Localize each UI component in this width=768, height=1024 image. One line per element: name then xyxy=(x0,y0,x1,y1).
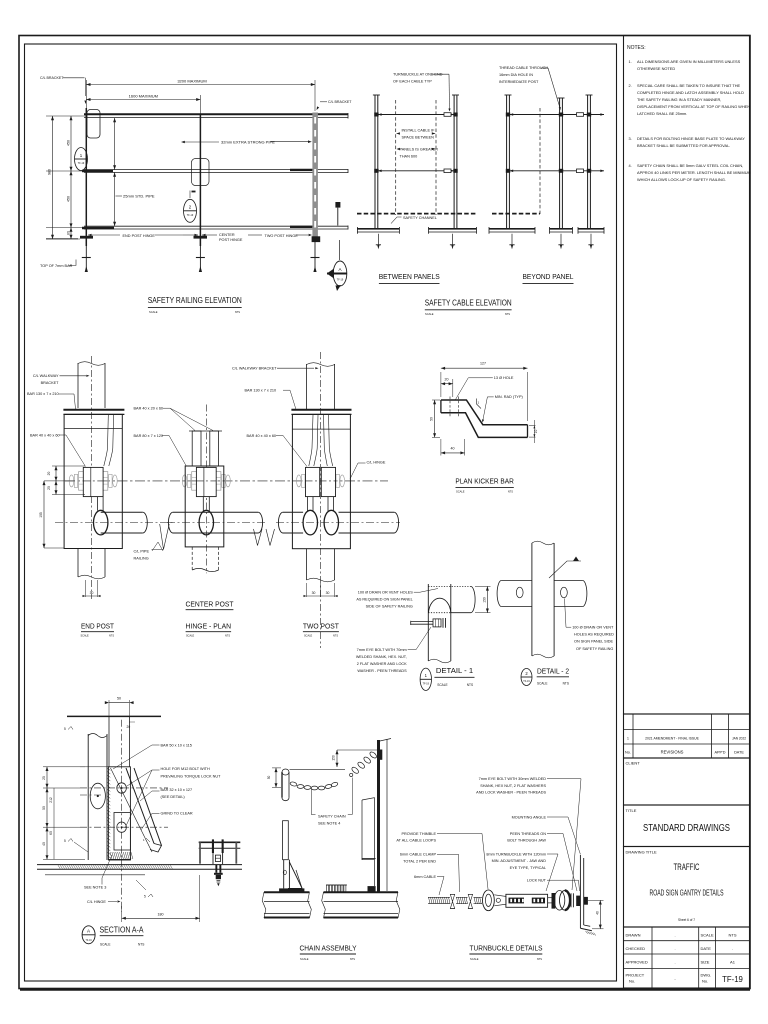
svg-text:INTERMEDIATE POST: INTERMEDIATE POST xyxy=(499,80,539,84)
svg-text:16mm DIA HOLE IN: 16mm DIA HOLE IN xyxy=(499,73,533,77)
svg-text:SCALE: SCALE xyxy=(304,635,313,638)
svg-text:END POST: END POST xyxy=(81,622,114,631)
svg-text:30: 30 xyxy=(90,591,94,595)
svg-text:TURNBUCKLE DETAILS: TURNBUCKLE DETAILS xyxy=(470,944,543,953)
svg-text:MIN. RAD (TYP): MIN. RAD (TYP) xyxy=(495,395,524,399)
svg-text:NTS: NTS xyxy=(225,635,230,638)
svg-text:SHANK, HEX NUT, 2 FLAT WASHERS: SHANK, HEX NUT, 2 FLAT WASHERS xyxy=(480,784,546,788)
svg-text:40: 40 xyxy=(42,842,46,846)
bottom rail pipe xyxy=(84,225,348,227)
base hatched xyxy=(110,852,112,859)
center post bars above xyxy=(192,431,201,466)
svg-text:SCALE: SCALE xyxy=(456,490,465,494)
svg-text:SAFETY CHAIN: SAFETY CHAIN xyxy=(318,815,346,819)
svg-text:TITLE: TITLE xyxy=(626,808,637,813)
thimble loop xyxy=(483,890,495,911)
svg-text:105: 105 xyxy=(39,512,43,518)
end post pipe xyxy=(94,510,108,535)
svg-text:PREVAILING TORQUE LOCK NUT: PREVAILING TORQUE LOCK NUT xyxy=(161,774,222,778)
svg-text:DWG.: DWG. xyxy=(701,973,712,978)
horizontal chain xyxy=(290,768,346,770)
washers xyxy=(570,893,572,907)
svg-text:6mm CABLE: 6mm CABLE xyxy=(414,875,436,879)
50 dim xyxy=(272,767,281,769)
svg-text:7mm EYE BOLT WITH 30mm WELDED: 7mm EYE BOLT WITH 30mm WELDED xyxy=(479,777,547,781)
svg-text:RAILING: RAILING xyxy=(134,557,149,561)
inner rect bar32 xyxy=(114,813,130,851)
svg-text:7mm EYE BOLT WITH 70mm: 7mm EYE BOLT WITH 70mm xyxy=(357,648,407,652)
svg-text:50: 50 xyxy=(267,776,271,780)
svg-text:REVISIONS: REVISIONS xyxy=(661,750,684,755)
svg-text:NTS: NTS xyxy=(235,310,240,314)
svg-text:SIZE: SIZE xyxy=(701,960,710,965)
notes box xyxy=(624,36,750,715)
detail 2 weld symbol xyxy=(549,561,581,578)
end post top plate BAR 130x7x210 xyxy=(63,409,124,411)
svg-text:ON SIGN PANEL SIDE: ON SIGN PANEL SIDE xyxy=(574,640,614,644)
weld flags on diagonal xyxy=(146,838,150,842)
CENTER POST HINGE-PLAN view xyxy=(205,405,207,574)
detail balloon 1 end post xyxy=(75,148,88,171)
svg-text:2.: 2. xyxy=(629,83,632,88)
end post 30 dim xyxy=(85,580,87,597)
jaw left xyxy=(494,895,506,906)
center post latch sleeve xyxy=(192,159,210,186)
svg-text:127: 127 xyxy=(480,362,486,366)
svg-text:BRACKET: BRACKET xyxy=(41,381,60,385)
svg-text:THAN 600: THAN 600 xyxy=(400,155,418,159)
walkway ground segments xyxy=(46,238,78,240)
svg-text:WHICH ALLOWS LOCK-UP OF SAFETY: WHICH ALLOWS LOCK-UP OF SAFETY RAILING. xyxy=(637,177,726,182)
sign panel edge xyxy=(362,798,374,860)
svg-text:NTS: NTS xyxy=(537,957,542,961)
lock nut dark xyxy=(576,896,580,906)
two post hinge xyxy=(306,472,315,491)
svg-text:TURNBUCKLE AT ONE END: TURNBUCKLE AT ONE END xyxy=(393,73,443,77)
kicker bar outline xyxy=(441,400,528,425)
weld hatch on plate left edge xyxy=(107,768,110,770)
svg-text:6mm CABLE CLAMP: 6mm CABLE CLAMP xyxy=(400,853,437,857)
detail 2 left pipe xyxy=(502,579,532,581)
bolt holes xyxy=(117,783,127,793)
two post upper bracket xyxy=(306,364,308,410)
dim 180 xyxy=(121,906,123,922)
svg-text:80: 80 xyxy=(66,231,70,235)
svg-text:40: 40 xyxy=(596,911,600,915)
svg-text:C/L HINGE: C/L HINGE xyxy=(87,900,106,904)
svg-text:HOLES AS REQUIRED: HOLES AS REQUIRED xyxy=(574,633,614,637)
svg-text:20: 20 xyxy=(47,472,51,476)
hole dashed lines xyxy=(449,397,451,417)
svg-text:BAR 32 x 10 x 127: BAR 32 x 10 x 127 xyxy=(161,788,193,792)
svg-text:SAFETY CABLE ELEVATION: SAFETY CABLE ELEVATION xyxy=(425,299,512,308)
svg-text:TF-19: TF-19 xyxy=(722,975,743,984)
weld flag on bend xyxy=(477,399,482,409)
two post lower stub xyxy=(306,549,308,580)
svg-text:SAFETY CHAIN SHALL BE 5mm GALV: SAFETY CHAIN SHALL BE 5mm GALV STEEL COI… xyxy=(637,163,743,168)
svg-text:SCALE: SCALE xyxy=(149,310,158,314)
eye bolt ring xyxy=(554,891,565,911)
svg-text:CENTER: CENTER xyxy=(219,233,235,237)
svg-text:C/L BRACKET: C/L BRACKET xyxy=(328,100,352,104)
center post xyxy=(199,114,201,246)
end post left dims 20/20/105 xyxy=(52,465,85,467)
svg-text:GRIND TO CLEAR: GRIND TO CLEAR xyxy=(161,812,193,816)
two post body xyxy=(292,414,350,548)
svg-text:BAR 40 x 20 x 60: BAR 40 x 20 x 60 xyxy=(134,407,164,411)
svg-text:SECTION A-A: SECTION A-A xyxy=(100,926,145,935)
svg-text:DISPLACEMENT FROM VERTICAL AT: DISPLACEMENT FROM VERTICAL AT TOP OF RAI… xyxy=(637,104,750,109)
far side bolt xyxy=(584,897,588,905)
revisions table xyxy=(624,714,750,758)
svg-text:TF-19: TF-19 xyxy=(337,279,344,282)
svg-text:30: 30 xyxy=(312,591,316,595)
svg-text:END POST HINGE: END POST HINGE xyxy=(123,234,156,238)
svg-text:2 FLAT WASHER AND LOCK: 2 FLAT WASHER AND LOCK xyxy=(357,662,407,666)
svg-text:TOP OF 7mm BAR: TOP OF 7mm BAR xyxy=(40,264,73,268)
detail 1 dome cap xyxy=(429,598,451,612)
cable rope left xyxy=(428,896,450,898)
svg-text:OF SAFETY RAILING: OF SAFETY RAILING xyxy=(576,647,613,651)
bolt below walkway xyxy=(215,865,217,873)
left lower bracket xyxy=(283,821,289,860)
svg-text:No.: No. xyxy=(625,751,631,755)
svg-text:HOLE FOR M12 BOLT WITH: HOLE FOR M12 BOLT WITH xyxy=(161,767,210,771)
detail 2 right pipe xyxy=(554,579,582,581)
drawn/checked table xyxy=(624,927,750,988)
svg-text:NTS: NTS xyxy=(138,943,144,947)
svg-text:WELDED SHANK, HEX. NUT,: WELDED SHANK, HEX. NUT, xyxy=(356,655,407,659)
TWO POST view xyxy=(320,352,322,648)
svg-text:CLIENT: CLIENT xyxy=(626,761,641,766)
end post inner bracket lines xyxy=(104,415,109,466)
svg-text:1.: 1. xyxy=(629,59,632,64)
svg-text:NTS: NTS xyxy=(333,635,338,638)
two post bar (grey) xyxy=(312,113,318,238)
svg-text:212: 212 xyxy=(49,797,53,803)
svg-text:BAR 130 x 7 x 210: BAR 130 x 7 x 210 xyxy=(27,392,59,396)
svg-text:5: 5 xyxy=(64,839,66,843)
right shaft xyxy=(548,897,552,899)
dim 10 right xyxy=(529,425,536,427)
chain diagonal from post top xyxy=(369,751,378,759)
svg-text:SEE NOTE 4: SEE NOTE 4 xyxy=(318,822,340,826)
svg-text:ALL DIMENSIONS ARE GIVEN IN MI: ALL DIMENSIONS ARE GIVEN IN MILLIMETERS … xyxy=(637,59,741,64)
svg-text:SAFETY RAILING ELEVATION: SAFETY RAILING ELEVATION xyxy=(148,296,242,305)
svg-text:BOLT THROUGH JAW: BOLT THROUGH JAW xyxy=(507,839,546,843)
svg-text:TF-19: TF-19 xyxy=(523,680,530,683)
svg-text:STANDARD DRAWINGS: STANDARD DRAWINGS xyxy=(643,823,730,834)
150 dim xyxy=(337,749,377,751)
two post pipes xyxy=(303,510,317,535)
svg-text:Sheet 6 of 7: Sheet 6 of 7 xyxy=(678,917,696,922)
svg-text:APP'D: APP'D xyxy=(714,751,725,755)
svg-text:TRAFFIC: TRAFFIC xyxy=(674,862,700,872)
svg-text:BAR 40 x 40 x 60: BAR 40 x 40 x 60 xyxy=(247,434,277,438)
svg-text:5: 5 xyxy=(144,895,146,899)
svg-text:25: 25 xyxy=(42,776,46,780)
beyond panel posts xyxy=(506,95,508,229)
dashed panel edges xyxy=(395,100,397,215)
left dim chain xyxy=(80,766,108,768)
svg-text:10: 10 xyxy=(534,430,538,434)
hinge centerlines horizontal xyxy=(80,787,168,789)
svg-text:EYE TYPE, TYPICAL: EYE TYPE, TYPICAL xyxy=(510,866,546,870)
two post inner bracket lines xyxy=(309,415,313,466)
svg-text:NOTES:: NOTES: xyxy=(627,45,646,51)
svg-text:.: . xyxy=(674,933,675,938)
svg-text:30: 30 xyxy=(326,591,330,595)
svg-text:DATE: DATE xyxy=(734,751,744,755)
svg-text:PROVIDE THIMBLE: PROVIDE THIMBLE xyxy=(401,832,436,836)
beyond panel safety channel xyxy=(492,213,540,215)
svg-text:20: 20 xyxy=(445,378,449,382)
svg-text:40: 40 xyxy=(451,447,455,451)
pipe break V marks left of center post xyxy=(160,524,170,549)
svg-text:ROAD SIGN GANTRY DETAILS: ROAD SIGN GANTRY DETAILS xyxy=(650,888,724,898)
svg-text:NTS: NTS xyxy=(109,635,114,638)
client box xyxy=(624,758,750,805)
end post centerline xyxy=(90,356,92,599)
svg-text:(SEE DETAIL): (SEE DETAIL) xyxy=(161,795,186,799)
svg-text:C/L BRACKET: C/L BRACKET xyxy=(40,76,64,80)
drawing title box xyxy=(624,847,750,928)
svg-text:BEYOND PANEL: BEYOND PANEL xyxy=(523,272,574,281)
dimension 1600 MAXIMUM xyxy=(199,95,201,114)
center post body xyxy=(185,466,224,547)
svg-text:NTS: NTS xyxy=(350,957,355,961)
detail 1 title xyxy=(420,668,431,690)
svg-text:AS REQUIRED ON SIGN PANEL: AS REQUIRED ON SIGN PANEL xyxy=(356,598,412,602)
post pivot hole xyxy=(90,783,105,809)
svg-text:SPECIAL CARE SHALL BE TAKEN TO: SPECIAL CARE SHALL BE TAKEN TO INSURE TH… xyxy=(637,83,741,88)
center post lower stub dashed xyxy=(191,547,193,570)
svg-text:TF-19: TF-19 xyxy=(78,162,85,165)
svg-text:13 Ø HOLE: 13 Ø HOLE xyxy=(494,376,514,380)
svg-text:CENTER POST: CENTER POST xyxy=(186,600,234,609)
svg-text:SCALE: SCALE xyxy=(300,957,309,961)
svg-text:8mm TURNBUCKLE WITH 120mm: 8mm TURNBUCKLE WITH 120mm xyxy=(486,852,546,856)
turnbuckle body xyxy=(506,894,548,907)
svg-text:APPROVED: APPROVED xyxy=(626,960,648,965)
svg-text:SCALE: SCALE xyxy=(81,635,90,638)
svg-text:AND LOCK WASHER - PEEN THREADS: AND LOCK WASHER - PEEN THREADS xyxy=(476,791,546,795)
svg-text:C/L PIPE: C/L PIPE xyxy=(134,550,150,554)
beyond panel feet xyxy=(489,228,535,230)
svg-text:C/L WALKWAY: C/L WALKWAY xyxy=(33,374,59,378)
svg-text:No.: No. xyxy=(629,979,635,984)
svg-text:C/L HINGE: C/L HINGE xyxy=(367,460,386,464)
svg-text:2021 AMENDMENT - FINAL ISSUE: 2021 AMENDMENT - FINAL ISSUE xyxy=(645,737,699,741)
section AA top rail line xyxy=(67,715,161,717)
end post hinge block xyxy=(79,472,88,491)
svg-text:C/L WALKWAY BRACKET: C/L WALKWAY BRACKET xyxy=(232,367,277,371)
svg-text:BRACKET SHALL BE SUBMITTED FOR: BRACKET SHALL BE SUBMITTED FOR APPROVAL. xyxy=(637,143,730,148)
svg-text:NTS: NTS xyxy=(467,683,473,687)
svg-text:CHAIN ASSEMBLY: CHAIN ASSEMBLY xyxy=(300,944,357,953)
detail 1 dim 150 xyxy=(475,585,491,587)
top rail pipe xyxy=(84,113,348,115)
inner rail spacing dim xyxy=(114,118,116,170)
svg-text:SCALE: SCALE xyxy=(437,683,447,687)
svg-text:50: 50 xyxy=(117,697,121,701)
svg-text:BETWEEN PANELS: BETWEEN PANELS xyxy=(379,272,440,281)
svg-text:BAR 40 x 40 x 60: BAR 40 x 40 x 60 xyxy=(30,434,60,438)
svg-text:PLAN KICKER BAR: PLAN KICKER BAR xyxy=(455,477,514,486)
end post upper bracket xyxy=(77,363,79,408)
rope to thimble xyxy=(456,896,468,898)
svg-text:POST HINGE: POST HINGE xyxy=(219,238,243,242)
svg-text:WASHER - PEEN THREADS: WASHER - PEEN THREADS xyxy=(357,669,407,673)
two post top plate xyxy=(291,409,351,411)
svg-text:SPACE BETWEEN: SPACE BETWEEN xyxy=(402,136,435,140)
end post xyxy=(85,108,87,246)
svg-text:450: 450 xyxy=(66,196,70,202)
title box xyxy=(624,805,750,847)
end post body xyxy=(64,414,122,548)
section AA title xyxy=(82,926,95,944)
middle rail pipe xyxy=(84,169,348,171)
detail balloon 2 center post xyxy=(184,199,197,222)
svg-text:32mm EXTRA STRONG PIPE: 32mm EXTRA STRONG PIPE xyxy=(221,140,275,145)
between panels feet xyxy=(357,228,399,230)
svg-text:PEEN THREADS ON: PEEN THREADS ON xyxy=(510,832,546,836)
cable clamps xyxy=(450,894,454,908)
svg-text:SCALE: SCALE xyxy=(701,933,714,938)
svg-text:.: . xyxy=(732,946,733,951)
svg-text:SIDE OF SAFETY RAILING: SIDE OF SAFETY RAILING xyxy=(366,605,413,609)
svg-text:SCALE: SCALE xyxy=(186,635,195,638)
svg-text:1: 1 xyxy=(627,737,629,741)
svg-text:PROJECT: PROJECT xyxy=(626,973,645,978)
svg-text:3.: 3. xyxy=(629,136,632,141)
end post lower stub xyxy=(77,548,79,577)
svg-text:20: 20 xyxy=(47,486,51,490)
svg-text:1600 MAXIMUM: 1600 MAXIMUM xyxy=(129,94,158,99)
svg-text:TWO POST: TWO POST xyxy=(303,622,339,631)
svg-text:APPROX 40 LINKS PER METER. LEN: APPROX 40 LINKS PER METER. LENGTH SHALL … xyxy=(637,170,751,175)
svg-text:.: . xyxy=(674,960,675,965)
drawing area inner border xyxy=(25,44,617,981)
svg-text:25mm STD. PIPE: 25mm STD. PIPE xyxy=(123,194,155,199)
svg-text:5: 5 xyxy=(64,727,66,731)
svg-text:No.: No. xyxy=(702,979,708,984)
svg-text:BAR 80 x 7 x 120: BAR 80 x 7 x 120 xyxy=(134,434,164,438)
detail 1 post xyxy=(427,584,429,661)
grating comb xyxy=(326,884,347,886)
svg-text:4.: 4. xyxy=(629,163,632,168)
svg-text:450: 450 xyxy=(66,140,70,146)
svg-text:SCALE: SCALE xyxy=(100,943,110,947)
svg-text:JAN 2022: JAN 2022 xyxy=(732,737,746,741)
svg-text:NTS: NTS xyxy=(508,490,513,494)
walkway beam xyxy=(37,864,242,866)
rail right ends xyxy=(347,113,349,119)
svg-text:LOCK NUT: LOCK NUT xyxy=(527,879,547,883)
dim 50 left xyxy=(432,399,440,401)
center post pipe through xyxy=(173,511,258,513)
U-bolt xyxy=(212,839,214,853)
beyond panel dashed edge xyxy=(539,108,541,214)
svg-text:TF-19: TF-19 xyxy=(187,214,194,217)
diagonal bar xyxy=(126,768,154,844)
right bracket (walkway clamp) xyxy=(199,841,241,843)
svg-text:3200 MAXIMUM: 3200 MAXIMUM xyxy=(177,79,206,84)
svg-text:TWO POST HINGE: TWO POST HINGE xyxy=(265,234,299,238)
svg-text:DATE: DATE xyxy=(701,946,712,951)
post stubs below walkway xyxy=(85,239,87,272)
upper bar strip xyxy=(108,716,110,766)
detail 1 eye bolt xyxy=(411,621,433,623)
left dims 980/450/450/80 xyxy=(46,115,86,117)
svg-text:NTS: NTS xyxy=(729,933,737,938)
svg-text:COMPLETED HINGE AND LATCH ASSE: COMPLETED HINGE AND LATCH ASSEMBLY SHALL… xyxy=(637,90,744,95)
post pipe xyxy=(87,734,89,860)
cables beyond panel xyxy=(510,114,604,116)
detail 1 pipe dotted top xyxy=(428,585,471,587)
safety channel dashed xyxy=(357,213,477,215)
svg-text:SCALE: SCALE xyxy=(537,682,547,686)
cables between panels xyxy=(378,114,453,116)
svg-text:60: 60 xyxy=(49,831,53,835)
svg-text:50: 50 xyxy=(42,806,46,810)
mounting angle xyxy=(579,855,581,928)
svg-text:SEE NOTE 3: SEE NOTE 3 xyxy=(84,886,106,890)
svg-text:SCALE: SCALE xyxy=(425,312,434,316)
svg-text:SAFETY CHANNEL: SAFETY CHANNEL xyxy=(403,216,437,220)
section AA centerline xyxy=(121,720,123,912)
svg-text:AT ALL CABLE LOOPS: AT ALL CABLE LOOPS xyxy=(396,839,436,843)
svg-text:BAR 130 x 7 x 210: BAR 130 x 7 x 210 xyxy=(245,389,277,393)
mini post cylinder xyxy=(282,769,289,775)
svg-text:180: 180 xyxy=(158,913,164,917)
svg-text:OTHERWISE NOTED: OTHERWISE NOTED xyxy=(637,66,675,71)
svg-text:THE SAFETY RAILING IN A STEADY: THE SAFETY RAILING IN A STEADY MANNER, xyxy=(637,97,721,102)
svg-text:LATCHED SHALL BE 25mm.: LATCHED SHALL BE 25mm. xyxy=(637,111,687,116)
pipe break V marks right of center post xyxy=(254,529,263,546)
svg-text:BAR 50 x 10 x 115: BAR 50 x 10 x 115 xyxy=(161,743,192,747)
between panels posts xyxy=(374,95,376,229)
svg-text:DRAWN: DRAWN xyxy=(626,933,641,938)
svg-text:100 Ø DRAIN OR VENT HOLES: 100 Ø DRAIN OR VENT HOLES xyxy=(358,591,413,595)
svg-text:TF-19: TF-19 xyxy=(423,683,430,686)
dim 20 xyxy=(441,383,453,385)
detail 2 title xyxy=(521,669,532,686)
svg-text:NTS: NTS xyxy=(505,312,510,316)
svg-text:.: . xyxy=(674,946,675,951)
dim 50 top xyxy=(108,700,110,716)
svg-text:MOUNTING ANGLE: MOUNTING ANGLE xyxy=(512,815,547,819)
detail 2 post xyxy=(531,543,533,656)
svg-text:DETAIL - 1: DETAIL - 1 xyxy=(436,666,473,675)
dimension 3200 MAXIMUM xyxy=(85,80,87,110)
svg-text:MIN. ADJUSTMENT - JAW AND: MIN. ADJUSTMENT - JAW AND xyxy=(492,859,547,863)
two post 30 30 dims xyxy=(306,583,308,597)
svg-text:980: 980 xyxy=(48,169,52,175)
svg-text:CHECKED: CHECKED xyxy=(626,946,646,951)
svg-text:150: 150 xyxy=(332,755,336,761)
40 dim right xyxy=(588,899,604,901)
dim 40 bottom xyxy=(440,439,442,456)
end post latch sleeve xyxy=(87,110,100,139)
svg-text:A1: A1 xyxy=(730,960,736,965)
svg-text:100 Ø DRAIN OR VENT: 100 Ø DRAIN OR VENT xyxy=(572,626,614,630)
svg-text:INSTALL CABLE IF: INSTALL CABLE IF xyxy=(402,129,436,133)
chain assembly tall post xyxy=(377,740,380,893)
svg-text:150: 150 xyxy=(483,597,487,603)
svg-text:SCALE: SCALE xyxy=(470,957,479,961)
svg-text:TF-19: TF-19 xyxy=(86,940,93,942)
